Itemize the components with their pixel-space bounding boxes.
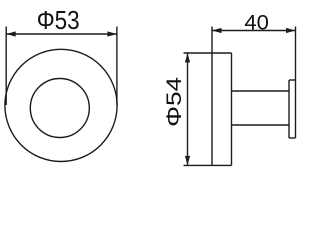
side view: stem top line [232,90,290,92]
front view: outer circle of hook flange [5,49,117,161]
svg-text:Φ53: Φ53 [37,7,80,35]
dimension Φ53: left extension line [5,27,7,106]
dimension Φ54: bottom arrowhead [185,156,190,166]
svg-text:40: 40 [244,11,269,35]
side view: flange bottom edge + Φ54 bottom extension line [184,164,232,166]
dimension Φ54: top arrowhead [185,53,190,63]
side view: tip cap right edge + 40-dim right extension line [295,27,297,139]
side view: tip cap top edge [289,79,296,81]
dimension 40: left arrowhead [212,28,222,33]
side view: flange top edge + Φ54 top extension line [184,52,232,54]
dimension Φ53: left arrowhead [6,31,16,36]
side view: flange left edge + 40-dim left extension line [211,27,213,166]
dimension Φ53: right extension line [116,27,118,106]
side view: tip cap bottom edge [289,137,296,139]
dimension 40: right arrowhead [286,28,296,33]
dimension Φ53: right arrowhead [107,31,117,36]
side view: flange right edge [231,53,233,165]
side view: tip cap left edge [288,80,290,138]
dimension 40: dimension line [212,30,296,32]
dimension Φ54: dimension line [187,53,189,165]
side view: stem bottom line [232,124,290,126]
front view: inner circle (raised hub) [30,79,89,138]
svg-text:Φ54: Φ54 [163,77,186,127]
dimension Φ53: dimension line [6,33,117,35]
